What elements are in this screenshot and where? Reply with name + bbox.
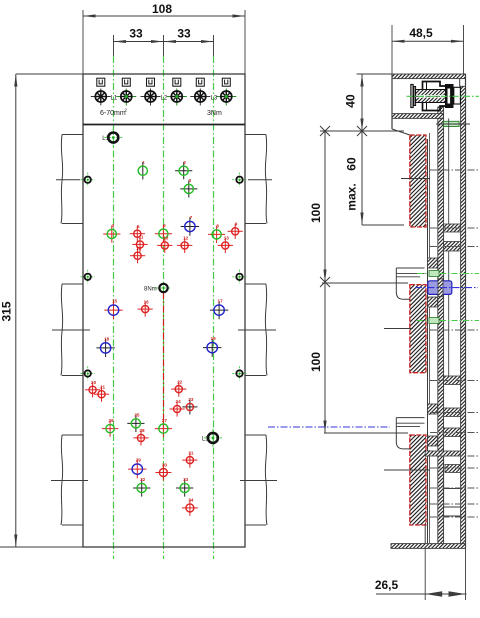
svg-text:L3: L3: [211, 96, 218, 102]
svg-text:27: 27: [162, 418, 168, 423]
svg-text:100: 100: [309, 203, 323, 223]
svg-text:108: 108: [152, 2, 172, 16]
svg-text:25: 25: [134, 413, 140, 418]
svg-text:6: 6: [163, 223, 166, 228]
svg-text:20: 20: [91, 380, 97, 385]
svg-text:23: 23: [188, 397, 194, 402]
svg-text:33: 33: [129, 27, 143, 41]
svg-text:L2: L2: [161, 96, 168, 102]
svg-text:315: 315: [0, 301, 14, 321]
svg-text:29: 29: [136, 458, 142, 463]
svg-text:19: 19: [211, 336, 217, 341]
svg-text:22: 22: [177, 379, 183, 384]
svg-text:3: 3: [189, 178, 192, 183]
svg-text:3Nm: 3Nm: [207, 110, 222, 117]
svg-text:4: 4: [112, 223, 115, 228]
svg-text:12: 12: [183, 236, 189, 241]
svg-text:13: 13: [224, 236, 230, 241]
svg-text:26,5: 26,5: [375, 578, 399, 592]
svg-text:21: 21: [100, 384, 106, 389]
svg-text:2: 2: [183, 160, 186, 165]
svg-text:8Nm: 8Nm: [144, 287, 157, 293]
svg-text:33: 33: [177, 27, 191, 41]
svg-text:26: 26: [109, 418, 115, 423]
svg-text:10: 10: [163, 236, 169, 241]
svg-text:7: 7: [190, 215, 193, 220]
svg-text:31: 31: [188, 450, 194, 455]
svg-text:24: 24: [176, 399, 182, 404]
svg-text:32: 32: [140, 477, 146, 482]
svg-text:33: 33: [183, 477, 189, 482]
svg-text:16: 16: [144, 299, 150, 304]
svg-text:100: 100: [309, 352, 323, 372]
svg-text:30: 30: [162, 462, 168, 467]
svg-text:48,5: 48,5: [409, 26, 433, 40]
svg-text:40: 40: [344, 94, 358, 108]
svg-text:L1: L1: [102, 136, 109, 142]
svg-text:5: 5: [137, 224, 140, 229]
svg-text:60: 60: [345, 157, 359, 171]
svg-text:17: 17: [218, 299, 224, 304]
svg-text:15: 15: [112, 299, 118, 304]
svg-text:34: 34: [188, 498, 194, 503]
svg-text:8: 8: [216, 224, 219, 229]
svg-text:28: 28: [139, 428, 145, 433]
svg-text:18: 18: [104, 337, 110, 342]
svg-text:max.: max.: [345, 183, 359, 210]
svg-text:6-70mm: 6-70mm: [100, 110, 126, 117]
svg-text:14: 14: [136, 246, 142, 251]
svg-text:L1: L1: [111, 96, 118, 102]
svg-text:9: 9: [235, 222, 238, 227]
svg-text:L1: L1: [202, 436, 209, 442]
svg-text:11: 11: [139, 235, 144, 240]
